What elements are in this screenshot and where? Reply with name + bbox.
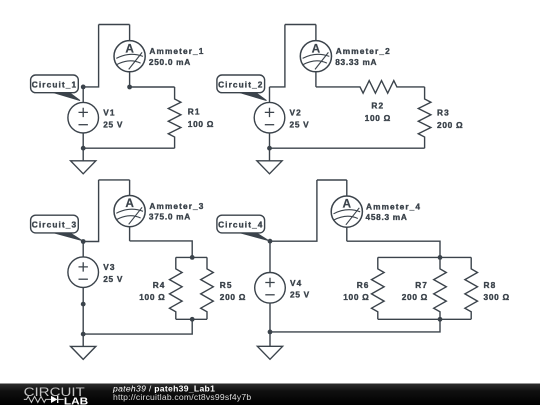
svg-text:R5: R5 — [220, 280, 233, 290]
svg-text:Ammeter_4: Ammeter_4 — [366, 201, 421, 211]
svg-text:100 Ω: 100 Ω — [343, 292, 369, 302]
svg-text:V3: V3 — [103, 262, 115, 272]
svg-text:Ammeter_3: Ammeter_3 — [149, 201, 204, 211]
svg-text:100 Ω: 100 Ω — [188, 119, 214, 129]
svg-text:25 V: 25 V — [103, 120, 123, 130]
svg-text:Circuit_4: Circuit_4 — [218, 220, 263, 230]
svg-text:375.0 mA: 375.0 mA — [149, 212, 191, 222]
svg-text:Ammeter_2: Ammeter_2 — [336, 46, 391, 56]
svg-text:200 Ω: 200 Ω — [437, 120, 463, 130]
svg-text:25 V: 25 V — [290, 120, 310, 130]
svg-text:R6: R6 — [357, 280, 370, 290]
svg-text:25 V: 25 V — [103, 274, 123, 284]
svg-text:83.33 mA: 83.33 mA — [335, 57, 377, 67]
svg-text:A: A — [125, 41, 134, 55]
svg-text:R4: R4 — [153, 280, 166, 290]
svg-text:A: A — [125, 196, 134, 210]
svg-text:200 Ω: 200 Ω — [220, 292, 246, 302]
svg-text:A: A — [343, 197, 352, 211]
svg-text:200 Ω: 200 Ω — [402, 292, 428, 302]
svg-text:100 Ω: 100 Ω — [139, 292, 165, 302]
svg-text:Ammeter_1: Ammeter_1 — [149, 46, 204, 56]
svg-text:LAB: LAB — [64, 396, 88, 405]
svg-text:R3: R3 — [437, 108, 450, 118]
svg-text:R7: R7 — [415, 280, 428, 290]
svg-text:R2: R2 — [371, 101, 384, 111]
svg-text:V4: V4 — [290, 278, 302, 288]
svg-text:R1: R1 — [188, 107, 201, 117]
svg-text:Circuit_3: Circuit_3 — [32, 220, 77, 230]
svg-text:100 Ω: 100 Ω — [365, 113, 391, 123]
svg-text:http://circuitlab.com/ct8vs99s: http://circuitlab.com/ct8vs99sf4y7b — [113, 392, 251, 402]
svg-text:300 Ω: 300 Ω — [484, 292, 510, 302]
svg-text:R8: R8 — [484, 280, 497, 290]
svg-text:250.0 mA: 250.0 mA — [149, 57, 191, 67]
svg-text:V2: V2 — [290, 108, 302, 118]
svg-text:458.3 mA: 458.3 mA — [366, 212, 408, 222]
svg-text:Circuit_1: Circuit_1 — [32, 80, 77, 90]
svg-text:25 V: 25 V — [290, 290, 310, 300]
svg-text:V1: V1 — [103, 108, 115, 118]
svg-text:Circuit_2: Circuit_2 — [218, 80, 263, 90]
svg-text:A: A — [312, 41, 321, 55]
